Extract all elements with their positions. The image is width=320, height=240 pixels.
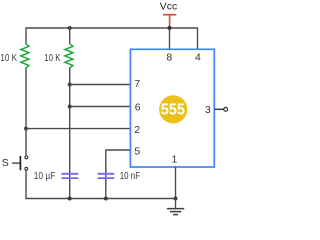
node pin7 junction — [68, 83, 72, 87]
svg-text:Vcc: Vcc — [160, 0, 178, 12]
wire pin 6 — [70, 106, 131, 108]
node C2 bottom junction — [104, 197, 108, 201]
svg-text:4: 4 — [195, 51, 201, 63]
terminal output open circle — [224, 107, 228, 111]
svg-text:10 nF: 10 nF — [120, 170, 140, 182]
wire pin 4 — [197, 27, 199, 49]
svg-text:10 K: 10 K — [0, 52, 17, 64]
resistor R2 — [65, 44, 73, 68]
svg-text:7: 7 — [134, 78, 140, 90]
node Vcc junction pin8 — [167, 26, 171, 30]
wire pin2 node down to switch — [25, 129, 27, 156]
wire switch to bottom bus — [25, 170, 27, 198]
capacitor C2 10 nF — [98, 174, 115, 178]
wire R1 top lead — [25, 27, 27, 44]
svg-text:3: 3 — [205, 104, 211, 116]
wire R1 bottom lead to pin2 node — [25, 68, 27, 129]
svg-text:S: S — [2, 157, 9, 169]
ground — [167, 199, 184, 215]
svg-text:555: 555 — [161, 101, 186, 118]
op-amp U1 555 timer IC body — [130, 49, 214, 167]
power Vcc symbol — [160, 0, 178, 27]
svg-text:5: 5 — [134, 145, 140, 157]
label S with tick — [2, 157, 20, 169]
wire pin 5 to capacitor C2 — [106, 150, 131, 199]
svg-text:2: 2 — [134, 124, 140, 136]
wire pin 7 — [70, 84, 131, 86]
switch S — [20, 156, 27, 170]
wire pin 3 output — [214, 108, 223, 110]
node C1 bottom junction — [68, 197, 72, 201]
node ground junction — [174, 197, 178, 201]
svg-text:8: 8 — [166, 51, 172, 63]
node R2 top junction — [68, 26, 72, 30]
capacitor C1 10 uF — [62, 174, 79, 178]
wire R2 bottom rail down to capacitor C1 and bus — [69, 68, 71, 199]
wire pin 8 — [169, 28, 171, 49]
resistor R1 — [21, 44, 29, 68]
wire bottom ground bus — [25, 198, 175, 200]
wire pin 1 to ground — [175, 167, 177, 199]
wire R2 top lead — [69, 28, 71, 44]
wire top bus Vcc rail — [26, 27, 198, 29]
svg-text:6: 6 — [135, 101, 141, 113]
node pin6 junction — [68, 105, 72, 109]
svg-text:10 µF: 10 µF — [34, 170, 56, 182]
wire pin 2 — [26, 128, 130, 130]
logo 555 yellow badge — [159, 95, 187, 123]
node pin2 junction on left rail — [24, 127, 28, 131]
svg-text:10 K: 10 K — [44, 52, 60, 64]
svg-text:1: 1 — [171, 153, 177, 165]
